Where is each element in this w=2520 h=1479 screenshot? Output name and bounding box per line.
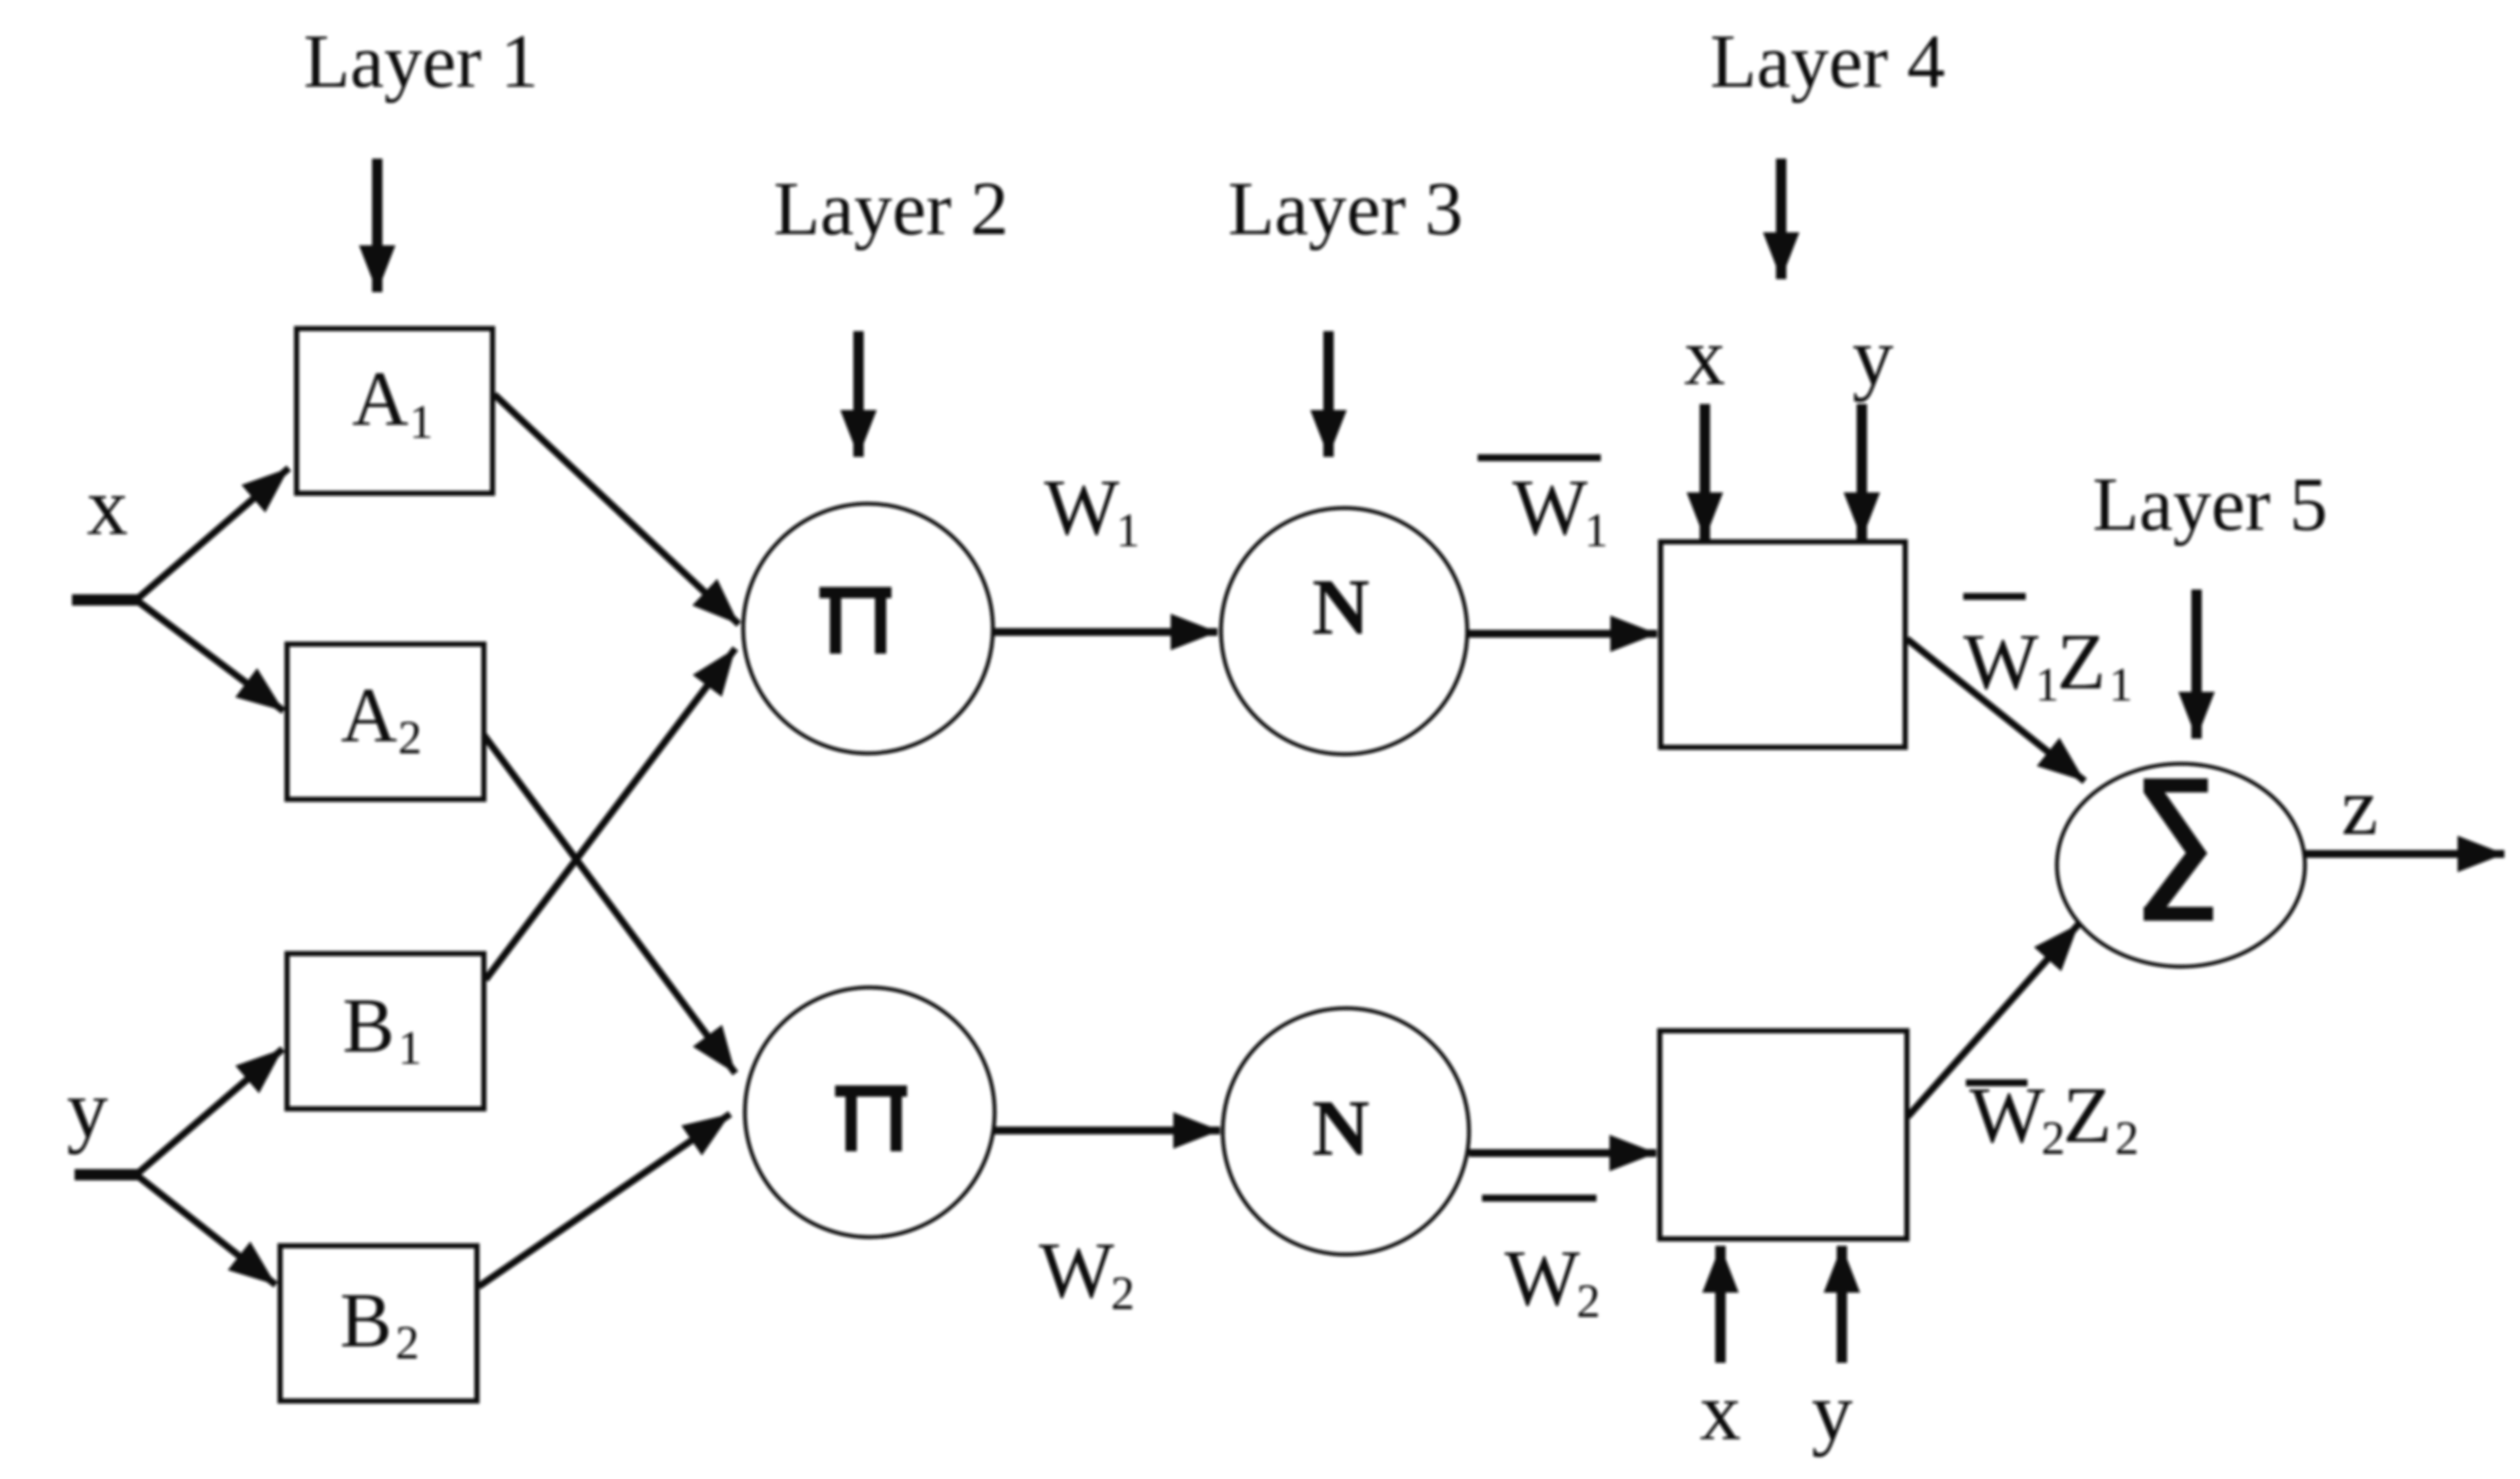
svg-text:Z: Z (2063, 1071, 2112, 1159)
svg-text:x: x (1700, 1365, 1741, 1457)
svg-text:2: 2 (395, 1316, 420, 1369)
svg-text:Layer 5: Layer 5 (2092, 463, 2327, 547)
svg-text:2: 2 (2115, 1111, 2139, 1164)
svg-text:Layer 4: Layer 4 (1710, 20, 1945, 104)
svg-text:x: x (87, 460, 128, 552)
svg-text:Layer 1: Layer 1 (304, 20, 539, 104)
svg-text:y: y (67, 1063, 108, 1155)
svg-text:1: 1 (1584, 504, 1609, 557)
svg-text:z: z (2341, 760, 2378, 852)
svg-text:1: 1 (2035, 658, 2060, 711)
svg-text:1: 1 (409, 395, 434, 448)
svg-text:N: N (1312, 1084, 1369, 1172)
svg-text:2: 2 (1111, 1267, 1135, 1319)
svg-text:W: W (1512, 463, 1588, 551)
svg-text:x: x (1684, 310, 1726, 402)
svg-text:W: W (1505, 1234, 1580, 1322)
svg-text:W: W (1044, 463, 1120, 551)
svg-text:y: y (1812, 1365, 1853, 1457)
svg-text:Layer 2: Layer 2 (774, 167, 1009, 251)
svg-text:Z: Z (2057, 617, 2105, 706)
svg-text:1: 1 (2109, 658, 2133, 711)
svg-text:B: B (340, 1278, 392, 1364)
svg-text:2: 2 (1577, 1274, 1601, 1327)
svg-text:1: 1 (398, 1021, 422, 1074)
svg-text:N: N (1312, 563, 1369, 651)
svg-text:W: W (1963, 617, 2039, 706)
svg-text:A: A (341, 673, 397, 759)
svg-text:W: W (1039, 1226, 1114, 1314)
svg-text:2: 2 (398, 711, 422, 764)
svg-text:A: A (352, 356, 408, 442)
svg-text:y: y (1852, 310, 1894, 402)
svg-text:W: W (1969, 1071, 2045, 1159)
svg-text:2: 2 (2041, 1111, 2066, 1164)
svg-text:B: B (343, 983, 395, 1069)
svg-text:Layer 3: Layer 3 (1228, 167, 1463, 251)
svg-text:1: 1 (1116, 504, 1140, 557)
